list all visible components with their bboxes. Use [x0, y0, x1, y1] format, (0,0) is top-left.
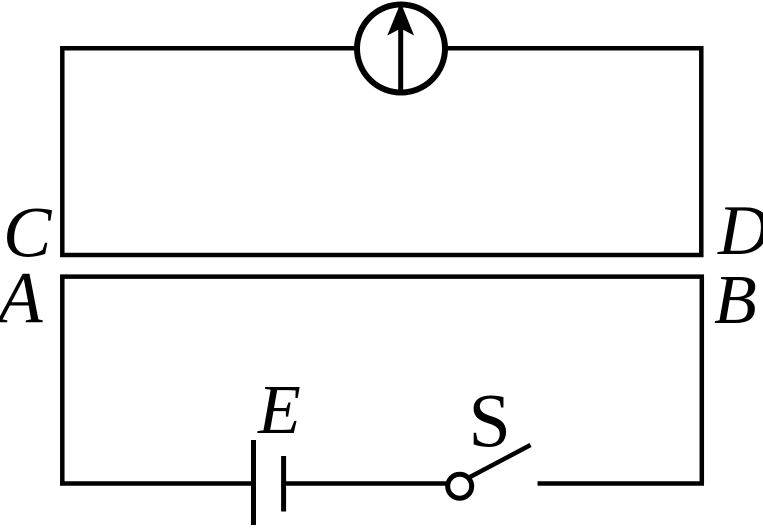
wire: top loop CD (left side, top side, right side, bottom side) — [62, 48, 701, 255]
wire: bottom side left segment (A corner to battery) — [60, 481, 254, 486]
svg-text:B: B — [714, 262, 757, 339]
wire: bottom loop AB top side, left side, right side — [62, 277, 702, 484]
battery E: long plate — [251, 440, 256, 525]
wire: bottom side middle segment (battery to switch) — [284, 481, 446, 486]
svg-text:A: A — [0, 257, 43, 338]
svg-text:D: D — [717, 192, 763, 270]
battery E: short plate — [281, 456, 286, 512]
svg-text:S: S — [469, 379, 511, 463]
galvanometer G — [357, 3, 445, 94]
svg-text:E: E — [257, 372, 301, 449]
switch S: lever arm — [470, 445, 531, 477]
switch S: pivot circle — [448, 474, 472, 498]
wire: bottom side right segment (switch to B corner) — [538, 481, 705, 486]
